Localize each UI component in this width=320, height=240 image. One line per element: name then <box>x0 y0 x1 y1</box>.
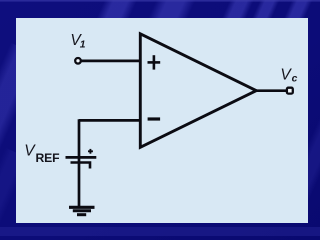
label Vc <box>280 67 297 85</box>
label V1 <box>70 32 85 51</box>
ground <box>69 207 95 214</box>
svg-text:1: 1 <box>80 40 86 51</box>
battery VREF negative plate <box>71 163 91 169</box>
wire op-amp - input to VREF node <box>79 119 141 122</box>
wire op-amp output to Vc terminal <box>255 89 287 92</box>
node Vc output terminal <box>287 88 293 94</box>
wire V1 terminal to op-amp + input <box>81 60 141 63</box>
svg-text:V: V <box>24 143 36 160</box>
op-amp U1 inverting input pin - <box>148 117 161 120</box>
op-amp U1 non-inverting input pin + <box>148 55 161 69</box>
label VREF <box>24 143 59 165</box>
svg-text:c: c <box>292 74 298 85</box>
battery VREF polarity mark + <box>88 149 93 154</box>
wire VREF node vertical <box>78 119 81 206</box>
battery VREF positive plate <box>66 156 97 159</box>
svg-text:V: V <box>280 67 292 84</box>
node V1 input terminal <box>75 58 81 64</box>
svg-text:REF: REF <box>36 151 60 165</box>
op-amp U1 <box>140 34 256 148</box>
